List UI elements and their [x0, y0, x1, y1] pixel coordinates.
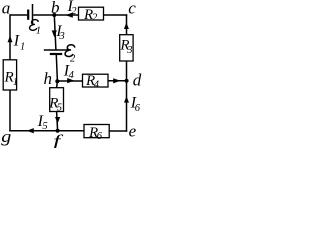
- wire top: R2 to corner c: [104, 14, 128, 16]
- node b junction dot: [52, 13, 56, 17]
- svg-text:h: h: [44, 69, 53, 88]
- wire bottom: g to R6: [9, 130, 84, 132]
- wire top: battery E1 to R2 (through node b): [33, 14, 78, 16]
- EMF source label E2 (script E): [65, 45, 75, 57]
- svg-text:1: 1: [36, 26, 41, 37]
- svg-text:5: 5: [57, 102, 62, 113]
- node h junction dot: [55, 79, 59, 83]
- svg-text:5: 5: [42, 121, 47, 132]
- svg-text:2: 2: [71, 6, 77, 17]
- wire middle horizontal: h to R4: [57, 80, 83, 82]
- svg-text:3: 3: [126, 45, 132, 56]
- svg-text:I: I: [13, 32, 20, 49]
- arrow I1 up on left wire: [8, 36, 13, 43]
- wire right: R3 down to d and e: [126, 61, 128, 132]
- node d junction dot: [125, 79, 129, 83]
- resistor R3 box: [120, 35, 133, 61]
- svg-text:1: 1: [20, 41, 25, 52]
- svg-text:d: d: [133, 71, 142, 90]
- wire middle vertical: h to R5: [56, 81, 59, 88]
- resistor R5 box: [50, 88, 64, 112]
- battery E2 long thin plate: [44, 49, 69, 51]
- arrow I3 down on middle wire: [52, 30, 57, 37]
- arrow left on bottom wire toward g: [27, 128, 34, 133]
- battery E1 long thin plate: [32, 4, 34, 25]
- svg-text:b: b: [51, 0, 60, 17]
- resistor R6 box: [84, 125, 109, 138]
- wire left: a down to R1: [9, 14, 11, 60]
- svg-text:6: 6: [135, 103, 141, 114]
- wire top: a to battery E1: [10, 14, 27, 16]
- battery E1 short thick plate: [27, 10, 29, 20]
- wire bottom: R6 to corner e: [109, 130, 127, 132]
- resistor R1 box: [3, 60, 16, 90]
- arrow right after R4 into d: [113, 78, 120, 83]
- resistor R2 box: [79, 7, 104, 20]
- arrow I2 left on top wire: [66, 13, 73, 18]
- wire middle horizontal: R4 to d: [108, 80, 127, 82]
- wire right: c down to R3: [126, 14, 128, 34]
- EMF source label E1 (script E): [30, 20, 39, 31]
- svg-text:6: 6: [97, 131, 103, 142]
- svg-text:2: 2: [92, 13, 98, 24]
- svg-text:e: e: [129, 122, 137, 141]
- svg-text:4: 4: [69, 70, 75, 81]
- svg-text:3: 3: [59, 31, 65, 42]
- resistor R4 box: [83, 74, 109, 87]
- node f junction dot: [56, 129, 60, 133]
- battery E2 short thick plate: [50, 53, 62, 55]
- svg-text:g: g: [1, 127, 11, 146]
- svg-text:c: c: [128, 0, 136, 18]
- svg-text:a: a: [2, 0, 11, 18]
- arrow up below node c: [124, 23, 129, 29]
- svg-text:4: 4: [94, 80, 100, 91]
- wire middle vertical: b down to battery E2: [54, 15, 56, 50]
- svg-text:2: 2: [70, 54, 76, 65]
- wire left: R1 down to g: [9, 90, 11, 132]
- arrow I5 down above f: [55, 117, 60, 124]
- wire middle vertical: battery E2 down to h: [56, 55, 57, 81]
- arrow I6 up on right wire: [124, 96, 129, 102]
- wire middle vertical: R5 down to f: [57, 112, 58, 131]
- arrow I4 right on middle horizontal wire: [67, 78, 74, 83]
- svg-text:1: 1: [13, 77, 18, 88]
